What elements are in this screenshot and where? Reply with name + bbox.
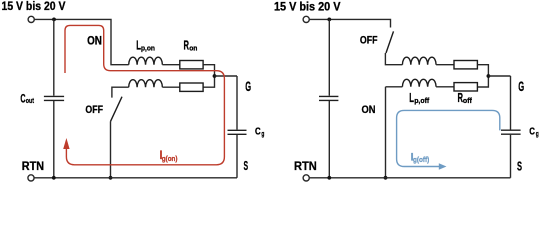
wire bottom rail (left): [34, 177, 237, 179]
wire switch to top coil (right): [385, 53, 402, 65]
svg-text:off: off: [463, 96, 472, 105]
wire lower branch left end (right): [386, 86, 403, 88]
current loop Ig(off) blue: [397, 110, 500, 166]
svg-text:G: G: [245, 78, 251, 94]
junction gate node (right): [487, 74, 491, 78]
switch ON closed wire to rail (right): [385, 87, 387, 178]
wire Cout branch lower (left): [53, 101, 55, 178]
wire top rail left + ON switch closed + to coil: [35, 19, 129, 64]
wire G vertical (right): [510, 76, 512, 130]
wire lower branch left end + OFF contact stub (left): [112, 87, 129, 97]
terminal supply (left): [28, 16, 34, 22]
svg-text:S: S: [244, 158, 249, 173]
wire coil to resistor (left top branch): [162, 64, 179, 66]
svg-text:R: R: [184, 38, 190, 52]
label Ron: [184, 38, 198, 52]
svg-text:g(off): g(off): [413, 155, 430, 164]
junction Cout/rail (left): [52, 176, 56, 180]
wire gate node to G wire (left): [215, 75, 238, 77]
svg-text:ON: ON: [362, 104, 376, 116]
svg-text:G: G: [518, 78, 524, 94]
wire Cout branch lower (right): [328, 101, 330, 178]
current loop Ig(on) red: [65, 25, 224, 164]
arrowhead Ig(on) red: [63, 138, 69, 149]
inductor Lp,off: [402, 79, 436, 87]
wire top branch to gate junction (left): [203, 65, 214, 88]
junction supply/Cout (left): [52, 18, 56, 22]
wire lower coil to resistor (right): [436, 86, 454, 88]
inductor upper (right, unlabeled): [402, 57, 436, 65]
svg-text:out: out: [26, 98, 35, 105]
wire OFF switch to bottom rail (left): [110, 121, 112, 177]
junction OFF/rail (left): [109, 176, 113, 180]
resistor Roff: [454, 83, 477, 91]
switch OFF blade open (right): [386, 31, 394, 53]
svg-text:15 V bis 20 V: 15 V bis 20 V: [274, 0, 341, 14]
wire lower coil to lower resistor (left): [162, 86, 179, 88]
wire top rail right + switch stub: [310, 19, 391, 27]
label Cg (left): [255, 126, 265, 138]
inductor Lp,on: [129, 57, 163, 64]
capacitor Cg (left): [228, 130, 247, 134]
label Lp,on: [136, 38, 155, 52]
terminal supply (right): [303, 16, 309, 22]
wire S vertical (left): [236, 135, 238, 178]
svg-text:S: S: [517, 159, 522, 174]
switch OFF blade open (left): [111, 97, 123, 122]
junction ON/rail (right): [384, 176, 388, 180]
label Cg (right): [529, 126, 539, 138]
label Ig(off) blue: [411, 152, 430, 164]
inductor lower (left, unlabeled): [129, 80, 163, 87]
label Lp,off: [409, 91, 429, 105]
junction supply/Cout (right): [327, 18, 331, 22]
resistor Ron: [180, 61, 203, 69]
terminal RTN (left): [28, 175, 34, 181]
resistor lower (left, unlabeled): [180, 83, 203, 91]
wire Cout branch upper (right): [328, 19, 330, 95]
svg-text:ON: ON: [87, 36, 102, 48]
label Ig(on) red: [159, 148, 178, 163]
label Cout: [20, 92, 34, 106]
resistor upper (right, unlabeled): [454, 61, 477, 69]
wire top coil to resistor (right): [436, 64, 454, 66]
arrowhead Ig(off) blue: [439, 163, 447, 169]
capacitor Cg (right): [501, 130, 521, 134]
svg-text:p,off: p,off: [414, 96, 429, 105]
svg-text:g: g: [261, 129, 264, 138]
capacitor Cout (right, unlabeled): [319, 96, 338, 100]
svg-text:on: on: [189, 43, 198, 52]
wire S vertical (right): [510, 135, 512, 178]
svg-text:g(on): g(on): [162, 154, 178, 163]
junction Cout/rail (right): [327, 176, 331, 180]
wire bottom rail (right): [310, 177, 511, 179]
capacitor Cout (left): [44, 96, 64, 100]
wire G vertical (left): [236, 76, 238, 130]
svg-text:RTN: RTN: [22, 159, 44, 173]
svg-text:OFF: OFF: [360, 35, 378, 47]
svg-text:C: C: [255, 126, 261, 137]
wire Cout branch upper (left): [53, 19, 55, 95]
wire gate node to G wire (right): [488, 75, 510, 77]
svg-text:g: g: [536, 129, 539, 138]
terminal RTN (right): [303, 175, 309, 181]
svg-text:C: C: [529, 126, 535, 137]
svg-text:p,on: p,on: [141, 43, 155, 52]
wire top branch to gate junction (right): [477, 65, 488, 87]
label Roff: [458, 91, 473, 105]
svg-text:15 V bis 20 V: 15 V bis 20 V: [2, 0, 66, 13]
svg-text:RTN: RTN: [294, 159, 317, 173]
svg-text:OFF: OFF: [85, 104, 103, 116]
junction gate node (left): [213, 74, 217, 78]
